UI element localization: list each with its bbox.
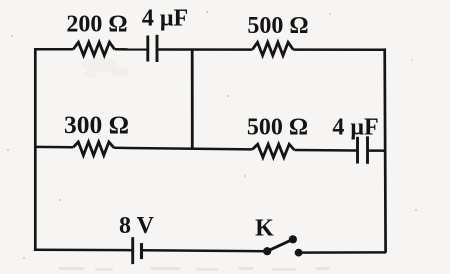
wire: middle row between 300 ohm and 500 ohm (114, 148, 252, 150)
svg-text:300 Ω: 300 Ω (64, 110, 129, 139)
capacitor 4uF (middle) left plate (356, 137, 359, 164)
switch K fixed contact dot (295, 249, 303, 257)
svg-text:K: K (255, 216, 274, 242)
wire: top row between capacitor and node junction (158, 48, 252, 51)
battery 8V short plate (140, 243, 143, 259)
resistor 300 ohm (73, 142, 114, 155)
svg-text:500 Ω: 500 Ω (247, 115, 308, 141)
battery 8V long plate (131, 237, 134, 264)
switch K hinge dot (263, 247, 271, 255)
wire: middle vertical junction branch (191, 49, 194, 149)
svg-text:4 μF: 4 μF (332, 115, 378, 141)
svg-text:8 V: 8 V (119, 213, 155, 239)
wire: top row left segment (34, 48, 73, 51)
switch K lever arm (267, 239, 293, 251)
wire: right vertical branch (383, 48, 387, 252)
svg-text:4 μF: 4 μF (142, 6, 188, 32)
wire: bottom row between battery and switch (143, 249, 267, 252)
wire: middle row between 500 ohm and capacitor (294, 149, 356, 152)
capacitor 4uF (top) right plate (156, 35, 159, 62)
resistor 500 ohm (top) (252, 42, 293, 55)
capacitor 4uF (top) left plate (146, 36, 149, 62)
faint print bleed-through near bottom edge (58, 267, 330, 271)
wire: bottom row right segment (299, 251, 386, 254)
resistor 500 ohm (middle) (252, 144, 294, 157)
scanner smudge under 200 ohm resistor (82, 58, 129, 78)
wire: top row between 200 ohm and capacitor (115, 48, 147, 51)
wire: middle row right stub to right branch (369, 149, 386, 152)
wire: left vertical branch (34, 48, 37, 250)
svg-text:500 Ω: 500 Ω (247, 13, 308, 39)
wire: top row right segment (293, 48, 385, 51)
switch K lever tip dot (289, 235, 297, 243)
wire: bottom row left segment (34, 248, 132, 251)
resistor 200 ohm (73, 42, 114, 55)
svg-text:200 Ω: 200 Ω (66, 11, 127, 37)
wire: middle row left segment (35, 146, 73, 149)
capacitor 4uF (middle) right plate (366, 136, 369, 164)
